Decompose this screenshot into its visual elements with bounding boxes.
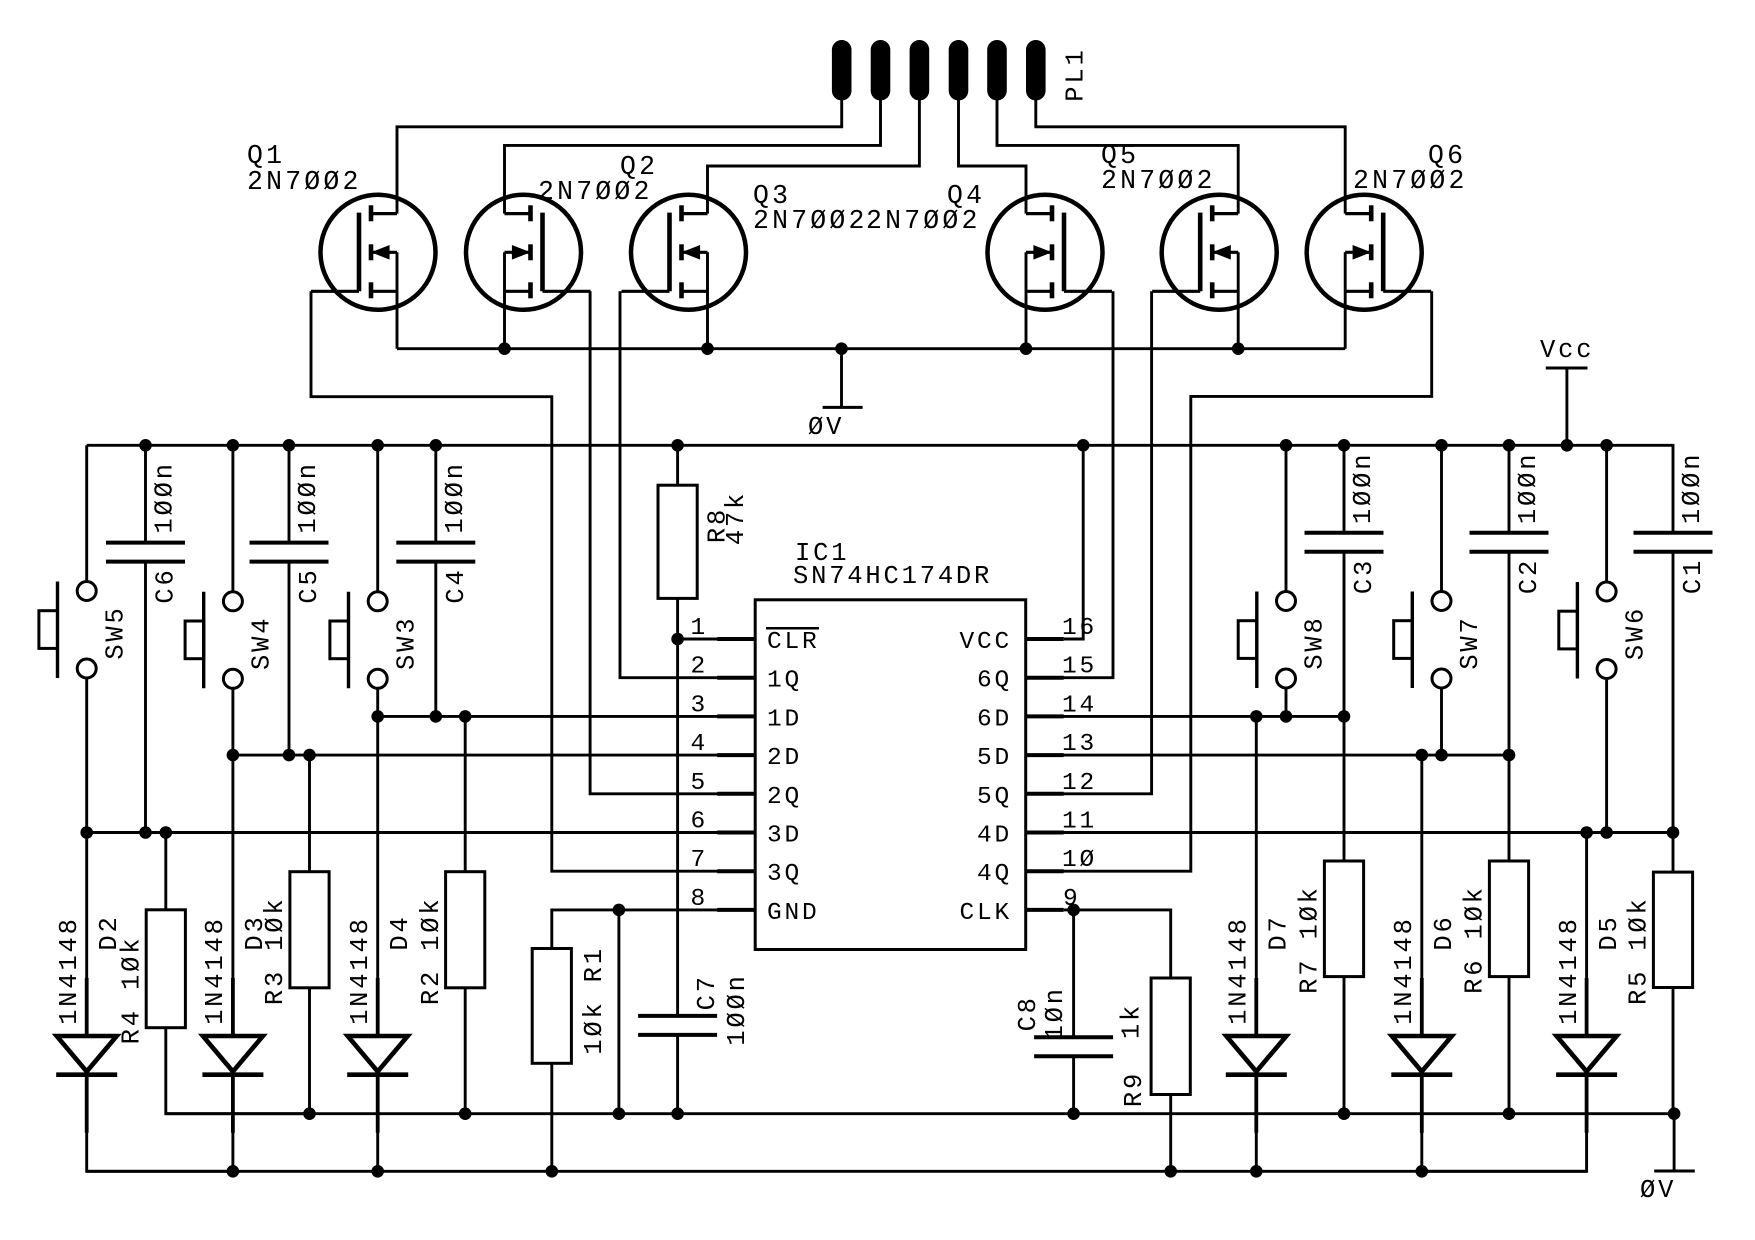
svg-text:2N7ØØ2: 2N7ØØ2: [753, 206, 868, 236]
junction D5 on 4D line: [1580, 826, 1593, 839]
wire C1 bottom to 4D line: [1672, 552, 1675, 833]
resistor R7: [1324, 861, 1363, 977]
wire Q3 source to 0V rail: [706, 252, 709, 348]
svg-text:R6 1Øk: R6 1Øk: [1461, 885, 1490, 994]
wire D4 anode: [376, 716, 379, 1036]
svg-text:CLR: CLR: [767, 629, 820, 656]
svg-text:7: 7: [690, 847, 708, 874]
capacitor C2 1ØØn: [1470, 533, 1549, 552]
svg-text:R2 1Øk: R2 1Øk: [417, 896, 446, 1005]
junction C6 on 3D line: [139, 826, 152, 839]
wire C4 top to Vcc rail: [434, 445, 437, 542]
wire SW7 to 5D line: [1440, 688, 1443, 755]
junction R2 on 1D line: [459, 710, 472, 723]
transistor Q6 2N7002 symbol: [1307, 195, 1432, 310]
svg-text:SW4: SW4: [248, 616, 277, 670]
IC pin 16 stub: [1026, 637, 1064, 641]
svg-text:SW8: SW8: [1301, 615, 1330, 669]
svg-text:1ØØn: 1ØØn: [1514, 452, 1543, 524]
capacitor C5 1ØØn: [250, 543, 329, 562]
resistor R9: [1151, 978, 1190, 1095]
switch SW8 pushbutton: [1238, 592, 1295, 689]
wire R2 top: [464, 716, 467, 871]
transistor Q5 2N7002 symbol: [1152, 195, 1277, 310]
wire C8 top: [1072, 910, 1075, 1037]
wire C2 bottom to 5D line: [1508, 552, 1511, 755]
junction GND stub on GND rail: [613, 1107, 626, 1120]
wire 0V source rail: [397, 347, 1345, 350]
wire Q6 source to 0V rail: [1344, 252, 1347, 348]
junction R3 on GND rail: [303, 1107, 316, 1120]
svg-text:12: 12: [1062, 770, 1097, 797]
junction R1 on bottom rail: [546, 1165, 559, 1178]
junction R8/C7 on pin1 wire: [671, 633, 684, 646]
svg-text:CLK: CLK: [959, 900, 1012, 927]
wire 4D net line from IC pin11: [1026, 831, 1673, 834]
IC pin 1 stub: [717, 637, 755, 641]
wire D5 cathode to bottom rail: [1422, 1075, 1587, 1172]
diode D3 1N4148: [202, 978, 263, 1133]
svg-text:C3: C3: [1350, 558, 1379, 594]
wire C3 bottom to 6D line: [1343, 552, 1346, 717]
wire 3D net line to IC pin6: [87, 831, 756, 834]
junction C1/R5 on 4D line: [1667, 826, 1680, 839]
svg-text:R4 1Øk: R4 1Øk: [118, 936, 147, 1045]
junction D4 on bottom rail: [371, 1165, 384, 1178]
svg-text:2N7ØØ2: 2N7ØØ2: [1353, 166, 1468, 196]
wire SW3 to 1D line: [376, 688, 379, 716]
wire IC pin16 VCC to Vcc rail: [1064, 445, 1084, 639]
svg-text:5Q: 5Q: [977, 784, 1012, 811]
wire C2 top to Vcc rail: [1508, 445, 1511, 533]
junction Q3 source on 0V rail: [701, 342, 714, 355]
wire R7 top: [1343, 716, 1346, 861]
switch SW4 pushbutton: [185, 592, 242, 689]
svg-text:3: 3: [690, 692, 708, 719]
junction C2/R6 on 5D line: [1503, 749, 1516, 762]
transistor Q3 2N7002 symbol: [622, 195, 747, 310]
svg-text:1ØØn: 1ØØn: [294, 461, 323, 533]
diode D2 1N4148: [56, 978, 117, 1133]
svg-text:ØV: ØV: [808, 413, 844, 442]
IC pin 9 stub: [1026, 908, 1064, 912]
svg-text:C6: C6: [152, 567, 181, 603]
svg-text:5D: 5D: [977, 745, 1012, 772]
junction Q5 source on 0V rail: [1232, 342, 1245, 355]
svg-text:D4: D4: [386, 914, 415, 950]
ground symbol 0V under MOSFET rail: [823, 349, 863, 408]
capacitor C3 1ØØn: [1305, 533, 1384, 552]
resistor R8: [658, 485, 697, 598]
svg-text:4: 4: [690, 731, 708, 758]
capacitor C4 1ØØn: [396, 543, 475, 562]
wire C4 bottom to 1D line: [434, 562, 437, 717]
IC pin 11 stub: [1026, 831, 1064, 835]
resistor R1: [532, 949, 571, 1064]
wire Q1 source to 0V rail: [396, 252, 399, 348]
wire Vcc rail to SW8: [1285, 445, 1288, 591]
junction C3/R7 on 6D line: [1338, 710, 1351, 723]
IC pin 7 stub: [717, 869, 755, 873]
resistor R3: [290, 872, 329, 988]
switch SW6 pushbutton: [1559, 582, 1616, 679]
IC pin 8 stub: [717, 908, 755, 912]
junction SW4 on Vcc rail: [227, 439, 240, 452]
wire D6 cathode to bottom rail: [1420, 1075, 1423, 1172]
wire D7 cathode to bottom rail: [1255, 1075, 1258, 1172]
wire R4 bottom to GND rail: [166, 1028, 310, 1114]
resistor R4: [146, 910, 185, 1028]
wire PL1 pin3 to Q3 drain: [708, 98, 920, 214]
svg-text:SW7: SW7: [1456, 615, 1485, 669]
svg-text:1N4148: 1N4148: [55, 916, 84, 1025]
junction D7 on bottom rail: [1250, 1165, 1263, 1178]
junction SW8 on Vcc rail: [1280, 439, 1293, 452]
diode D4 1N4148: [347, 978, 408, 1133]
junction SW6 on Vcc rail: [1600, 439, 1613, 452]
IC pin 5 stub: [717, 792, 755, 796]
svg-text:1N4148: 1N4148: [201, 916, 230, 1025]
svg-text:1ØØn: 1ØØn: [1349, 452, 1378, 524]
wire IC pin8 GND to R1: [552, 910, 755, 949]
IC pin 6 stub: [717, 831, 755, 835]
wire Vcc rail to SW7: [1440, 445, 1443, 591]
svg-text:1ØØn: 1ØØn: [441, 461, 470, 533]
junction C5 on 2D line: [283, 749, 296, 762]
wire C5 top to Vcc rail: [288, 445, 291, 542]
wire Vcc rail to SW4: [231, 445, 234, 592]
wire Q6 gate to IC pin10 4Q: [1026, 291, 1432, 871]
wire C6 bottom to 3D line: [144, 562, 147, 833]
transistor Q1 2N7002 symbol: [311, 195, 436, 310]
wire pin1 node down to C7: [676, 639, 679, 1016]
svg-text:1ØØn: 1ØØn: [723, 973, 752, 1045]
wire PL1 pin4 to Q4 drain: [959, 98, 1027, 214]
svg-text:1k: 1k: [1118, 1003, 1147, 1039]
svg-text:3Q: 3Q: [767, 861, 802, 888]
wire GND stub down to GND rail: [617, 910, 620, 1114]
power symbol Vcc: [1546, 368, 1588, 445]
wire R2 bottom to GND rail: [464, 988, 467, 1114]
svg-text:1Øn: 1Øn: [1041, 986, 1070, 1040]
svg-text:VCC: VCC: [959, 629, 1012, 656]
svg-text:5: 5: [690, 770, 708, 797]
transistor Q4 2N7002 symbol: [988, 195, 1113, 310]
junction C6 on Vcc rail: [139, 439, 152, 452]
diode D5 1N4148: [1556, 978, 1617, 1133]
junction D6 on bottom rail: [1416, 1165, 1429, 1178]
junction R8 on Vcc rail: [671, 439, 684, 452]
junction C7 on GND rail: [671, 1107, 684, 1120]
svg-text:6D: 6D: [977, 706, 1012, 733]
svg-text:1Ø: 1Ø: [1062, 847, 1097, 874]
svg-text:1N4148: 1N4148: [346, 916, 375, 1025]
svg-text:4Q: 4Q: [977, 861, 1012, 888]
wire PL1 pin2 to Q2 drain: [505, 98, 881, 214]
wire 5D net line from IC pin13: [1026, 754, 1509, 757]
wire Q1 gate to IC pin7 3Q: [311, 291, 755, 871]
junction SW8 on 6D line: [1280, 710, 1293, 723]
wire R1 bottom to bottom rail: [550, 1063, 553, 1171]
wire Q4 source to 0V rail: [1025, 252, 1028, 348]
wire Q5 gate to IC pin12 5Q: [1026, 291, 1152, 794]
wire Vcc rail: [87, 444, 1673, 447]
wire pin1 CLR: [678, 638, 756, 641]
wire SW8 to 6D line: [1285, 688, 1288, 716]
wire Vcc rail to SW5: [85, 445, 88, 581]
junction SW4/D3 on 2D line: [227, 749, 240, 762]
IC pin 2 stub: [717, 676, 755, 680]
diode D6 1N4148: [1391, 978, 1452, 1133]
wire 1D net line to IC pin3: [378, 715, 756, 718]
junction D3 on bottom rail: [227, 1165, 240, 1178]
wire D2 cathode to bottom rail: [87, 1075, 233, 1172]
wire SW6 to 4D line: [1605, 679, 1608, 833]
junction Q2 source on 0V rail: [498, 342, 511, 355]
junction C4 on 1D line: [430, 710, 443, 723]
junction SW6 on 4D line: [1600, 826, 1613, 839]
wire 6D net line from IC pin14: [1026, 715, 1344, 718]
svg-text:4D: 4D: [977, 823, 1012, 850]
wire R4 top: [164, 833, 167, 910]
svg-text:PL1: PL1: [1062, 47, 1091, 101]
wire R9 bottom to bottom rail: [1169, 1095, 1172, 1172]
resistor R2: [446, 872, 485, 988]
svg-text:6: 6: [690, 809, 708, 836]
svg-text:C1: C1: [1679, 558, 1708, 594]
wire C8 bottom to GND rail: [1072, 1056, 1075, 1114]
svg-text:1N4148: 1N4148: [1555, 916, 1584, 1025]
svg-text:C7: C7: [693, 974, 722, 1010]
capacitor C8 1Øn: [1034, 1037, 1113, 1056]
svg-text:2Q: 2Q: [767, 784, 802, 811]
wire C6 top to Vcc rail: [144, 445, 147, 542]
wire D6 anode: [1420, 755, 1423, 1036]
svg-text:47k: 47k: [722, 491, 751, 545]
svg-text:R7 1Øk: R7 1Øk: [1296, 885, 1325, 994]
svg-text:1Øk R1: 1Øk R1: [580, 946, 609, 1055]
svg-text:6Q: 6Q: [977, 668, 1012, 695]
IC pin 15 stub: [1026, 676, 1064, 680]
junction R3 on 2D line: [303, 749, 316, 762]
svg-text:D2: D2: [95, 914, 124, 950]
svg-text:SN74HC174DR: SN74HC174DR: [793, 562, 992, 591]
svg-text:2D: 2D: [767, 745, 802, 772]
svg-text:2N7ØØ2: 2N7ØØ2: [247, 167, 362, 197]
junction IC VCC on Vcc rail: [1077, 439, 1090, 452]
wire SW4 to 2D line: [231, 688, 234, 755]
switch SW3 pushbutton: [330, 592, 387, 689]
svg-text:C5: C5: [295, 567, 324, 603]
wire Q5 source to 0V rail: [1237, 252, 1240, 348]
IC CLR overline: [766, 627, 819, 630]
junction C3 on Vcc rail: [1338, 439, 1351, 452]
junction R5/ground on GND rail: [1668, 1107, 1681, 1120]
junction SW3/D4 on 1D line: [371, 710, 384, 723]
diode D7 1N4148: [1226, 978, 1287, 1133]
svg-text:D3: D3: [241, 914, 270, 950]
svg-text:1D: 1D: [767, 706, 802, 733]
wire R5 bottom to GND rail: [1672, 988, 1675, 1114]
IC pin 3 stub: [717, 714, 755, 718]
svg-text:C8: C8: [1014, 995, 1043, 1031]
wire C7 bottom to GND rail: [676, 1035, 679, 1114]
wire Vcc rail to SW6: [1605, 445, 1608, 582]
wire D5 anode: [1585, 833, 1588, 1037]
wire R7 bottom to GND rail: [1343, 977, 1346, 1114]
svg-text:1N4148: 1N4148: [1390, 916, 1419, 1025]
wire GND middle rail: [166, 1112, 1674, 1115]
svg-text:GND: GND: [767, 900, 820, 927]
transistor Q2 2N7002 symbol: [466, 195, 591, 310]
svg-text:2: 2: [690, 654, 708, 681]
capacitor C1 1ØØn: [1634, 533, 1713, 552]
IC pin 14 stub: [1026, 714, 1064, 718]
resistor R5: [1653, 872, 1692, 987]
svg-text:1: 1: [690, 615, 708, 642]
wire D3 anode: [231, 755, 234, 1036]
wire Q2 gate to IC pin5 2Q: [590, 291, 755, 794]
wire D7 anode: [1255, 716, 1258, 1036]
junction SW5/D2 on 3D line: [80, 826, 93, 839]
junction Vcc symbol on Vcc rail: [1561, 439, 1574, 452]
wire 2D net line to IC pin4: [233, 754, 755, 757]
wire diode cathode bottom rail: [87, 1170, 1587, 1173]
junction 0V ground stub: [835, 342, 848, 355]
svg-text:R9: R9: [1120, 1071, 1149, 1107]
svg-text:2N7ØØ2: 2N7ØØ2: [1101, 166, 1216, 196]
wire SW5 to 3D line: [85, 678, 88, 833]
svg-text:D5: D5: [1595, 914, 1624, 950]
junction C5 on Vcc rail: [283, 439, 296, 452]
IC pin 12 stub: [1026, 792, 1064, 796]
svg-text:Vcc: Vcc: [1540, 336, 1594, 365]
svg-text:C4: C4: [442, 567, 471, 603]
wire Q4 gate to IC pin15 6Q: [1026, 291, 1113, 677]
svg-text:2N7ØØ2: 2N7ØØ2: [866, 206, 981, 236]
capacitor C6 1ØØn: [106, 543, 185, 562]
wire PL1 pin6 to Q6 drain: [1036, 98, 1345, 214]
junction D7 on 6D line: [1250, 710, 1263, 723]
svg-text:SW6: SW6: [1621, 606, 1650, 660]
wire D3 cathode to bottom rail: [231, 1075, 234, 1172]
junction SW3 on Vcc rail: [371, 439, 384, 452]
wire Vcc rail to SW3: [376, 445, 379, 592]
junction SW7 on Vcc rail: [1435, 439, 1448, 452]
svg-text:SW5: SW5: [101, 605, 130, 659]
wire C3 top to Vcc rail: [1343, 445, 1346, 533]
junction C8 on CLK wire: [1067, 904, 1080, 917]
svg-text:D6: D6: [1430, 914, 1459, 950]
svg-text:C2: C2: [1515, 558, 1544, 594]
svg-text:ØV: ØV: [1640, 1176, 1676, 1205]
junction Q4 source on 0V rail: [1020, 342, 1033, 355]
IC U1 SN74HC174DR box: [755, 600, 1025, 950]
resistor R6: [1489, 861, 1528, 977]
junction C8 on GND rail: [1067, 1107, 1080, 1120]
wire Q3 gate to IC pin2 1Q: [620, 291, 755, 677]
junction C2 on Vcc rail: [1503, 439, 1516, 452]
wire D4 cathode to bottom rail: [376, 1075, 379, 1172]
svg-text:SW3: SW3: [392, 616, 421, 670]
svg-text:1ØØn: 1ØØn: [1678, 452, 1707, 524]
wire R6 top: [1508, 755, 1511, 861]
svg-text:15: 15: [1062, 654, 1097, 681]
junction R9 on bottom rail: [1164, 1165, 1177, 1178]
junction GND stub on pin8 wire: [613, 904, 626, 917]
junction R2 on GND rail: [459, 1107, 472, 1120]
wire C1 top to Vcc rail: [1671, 445, 1674, 533]
wire IC pin9 CLK to R9: [1064, 910, 1171, 978]
junction D6 on 5D line: [1416, 749, 1429, 762]
svg-text:D7: D7: [1265, 914, 1294, 950]
svg-text:1N4148: 1N4148: [1225, 916, 1254, 1025]
wire R8 top to Vcc rail: [676, 445, 679, 485]
wire R5 top: [1672, 833, 1675, 873]
IC pin 10 stub: [1026, 869, 1064, 873]
junction R6 on GND rail: [1503, 1107, 1516, 1120]
wire R3 bottom to GND rail: [308, 988, 311, 1114]
wire Q2 source to 0V rail: [503, 252, 506, 348]
svg-text:1Q: 1Q: [767, 668, 802, 695]
svg-text:3D: 3D: [767, 823, 802, 850]
svg-text:R5 1Øk: R5 1Øk: [1625, 896, 1654, 1005]
wire PL1 pin1 to Q1 drain: [397, 98, 842, 214]
ground symbol 0V bottom right: [1654, 1114, 1695, 1171]
switch SW5 pushbutton: [39, 582, 96, 679]
wire PL1 pin5 to Q5 drain: [997, 98, 1238, 214]
connector PL1: [832, 40, 1046, 101]
junction SW7 on 5D line: [1435, 749, 1448, 762]
IC pin 13 stub: [1026, 753, 1064, 757]
wire R3 top: [308, 755, 311, 872]
capacitor C7 1ØØn: [638, 1016, 717, 1035]
IC pin 4 stub: [717, 753, 755, 757]
wire D2 anode: [85, 833, 88, 1037]
junction R4 on 3D line: [160, 826, 173, 839]
wire R6 bottom to GND rail: [1508, 977, 1511, 1114]
wire R8 bottom to IC pin1 CLR: [676, 598, 679, 639]
junction R7 on GND rail: [1338, 1107, 1351, 1120]
svg-text:1ØØn: 1ØØn: [151, 461, 180, 533]
junction C4 on Vcc rail: [430, 439, 443, 452]
wire C5 bottom to 2D line: [288, 562, 291, 756]
switch SW7 pushbutton: [1394, 592, 1451, 689]
